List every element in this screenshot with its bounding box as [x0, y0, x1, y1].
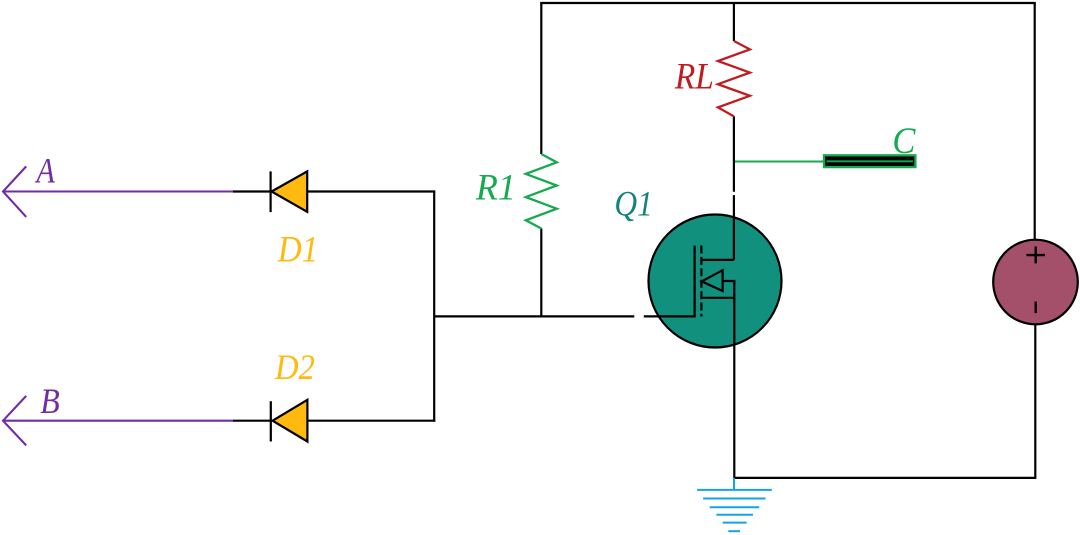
- svg-text:Q1: Q1: [614, 184, 653, 224]
- svg-text:D1: D1: [277, 229, 318, 270]
- svg-text:C: C: [892, 121, 916, 162]
- svg-text:R1: R1: [475, 167, 516, 208]
- svg-text:D2: D2: [274, 347, 315, 387]
- svg-text:A: A: [35, 150, 56, 190]
- svg-text:B: B: [40, 381, 60, 421]
- svg-text:RL: RL: [674, 57, 714, 98]
